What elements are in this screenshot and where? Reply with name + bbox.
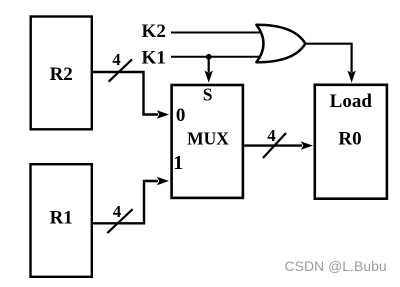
register R2 [31,17,92,130]
svg-text:R1: R1 [50,208,73,229]
svg-text:K1: K1 [142,48,166,69]
svg-text:R2: R2 [50,64,73,85]
wire MUX output to R0 [244,141,313,149]
register R1 [31,164,92,277]
wire junction to MUX select S [205,57,213,83]
svg-text:4: 4 [112,50,121,69]
bus slash on MUX output bus [263,133,286,158]
wire OR gate output to R0 Load [305,44,356,83]
wire R1 to MUX input 1 [93,177,169,224]
register R0 [315,85,387,199]
svg-text:CSDN @L.Bubu: CSDN @L.Bubu [285,258,387,274]
svg-text:1: 1 [173,152,183,174]
bus slash on R2 bus [109,59,132,81]
junction on K1 wire [206,54,212,60]
wire R2 to MUX input 0 [93,72,169,119]
svg-text:4: 4 [267,126,276,145]
wire K2 to OR gate input [171,32,261,34]
svg-text:S: S [203,85,213,105]
svg-text:K2: K2 [142,21,166,42]
svg-text:MUX: MUX [187,129,229,149]
svg-text:R0: R0 [338,128,361,149]
bus slash on R1 bus [107,209,132,233]
wire K1 to OR gate input [171,56,261,58]
svg-text:Load: Load [330,91,373,112]
or-gate G1 [256,25,305,63]
svg-text:0: 0 [176,105,186,126]
svg-text:4: 4 [113,202,122,221]
multiplexer MUX [172,85,243,198]
